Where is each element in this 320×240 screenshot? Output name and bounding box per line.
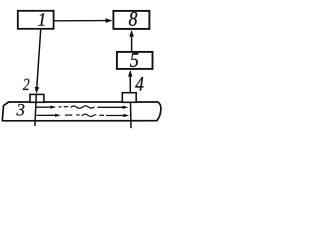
wire 1 down to 2 (arrow down into 2) [37, 30, 41, 88]
label 4 [135, 77, 143, 91]
flow dashes top [59, 106, 62, 108]
flow squiggle top [71, 106, 95, 108]
flow arrow top-right [98, 106, 124, 108]
flow squiggle bottom [82, 114, 97, 116]
box 8 [113, 11, 149, 29]
block 4 [122, 93, 136, 103]
wire through pipe at 2 [35, 95, 36, 126]
block 2 [30, 94, 44, 102]
wire 4 to 5 (arrow up into 5) [129, 75, 131, 93]
box 1 [18, 11, 54, 29]
wire 8 to 5 (arrow up into 8) [131, 34, 133, 52]
wire through pipe at 4 [130, 102, 133, 128]
label 2 [23, 79, 29, 90]
label 8 [129, 12, 137, 26]
pipe 3 outline [2, 102, 161, 121]
flow arrow bottom-left [37, 114, 56, 116]
label 1 [38, 13, 44, 25]
box 5 [117, 52, 153, 69]
label 3 [16, 104, 24, 116]
flow dashes bottom [65, 114, 72, 116]
flow arrow bottom-right [106, 115, 124, 117]
label 5 [130, 53, 138, 67]
flow arrow top-left [37, 106, 52, 108]
wire 1 to 8 [54, 20, 107, 22]
